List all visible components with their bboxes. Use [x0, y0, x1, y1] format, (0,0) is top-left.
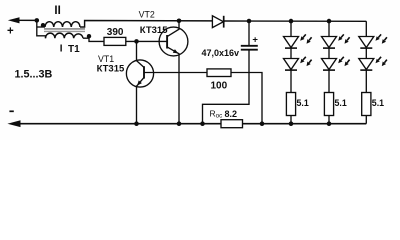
LED HL2b arrows — [341, 57, 344, 60]
wire winding II right terminal to top rail — [80, 21, 212, 28]
node capacitor top on rail — [247, 19, 252, 24]
node R100 return on bottom rail — [260, 121, 265, 126]
node LED branch 2 on top rail — [327, 19, 332, 24]
svg-text:8.2: 8.2 — [225, 109, 238, 119]
wire resistor to bottom rail branch 1 — [290, 116, 292, 124]
LED HL2b — [322, 59, 337, 70]
LED HL1a arrows — [303, 34, 306, 37]
node VT2 emitter on bottom rail — [177, 121, 182, 126]
resistor Roc 8.2 — [221, 120, 243, 128]
node: battery+ to transformer junction — [35, 18, 40, 23]
wire LED to resistor branch 1 — [290, 70, 292, 93]
VT1 emitter arrow — [137, 80, 142, 85]
svg-text:КТ315: КТ315 — [97, 63, 125, 74]
LED HL3a arrows — [378, 34, 381, 37]
phase dot winding II — [41, 23, 45, 27]
capacitor C1 plates — [241, 45, 258, 47]
LED HL1b arrows — [303, 57, 306, 60]
LED HL1a — [284, 37, 299, 48]
wire bottom rail (right of Roc) — [243, 123, 367, 125]
wire between LEDs branch 1 — [290, 48, 292, 59]
diode VD cathode bar — [223, 16, 225, 28]
svg-text:ос: ос — [216, 113, 223, 120]
VT1 base wire to R100 — [144, 72, 207, 74]
svg-text:Т1: Т1 — [68, 44, 80, 55]
node LED branch 1 on top rail — [289, 19, 294, 24]
node VT2 collector on top rail — [177, 19, 182, 24]
wire top rail left segment — [16, 19, 37, 21]
resistor 390 — [104, 37, 126, 45]
LED HL2a arrows — [341, 34, 344, 37]
+ terminal arrow — [8, 17, 20, 23]
wire resistor to bottom rail branch 3 — [365, 116, 367, 124]
node R390/VT1 collector/VT2 base — [134, 39, 139, 44]
VT2 emitter — [167, 47, 179, 124]
node capacitor return on bottom rail — [200, 121, 205, 126]
wire resistor to bottom rail branch 2 — [328, 116, 330, 124]
- terminal arrow (bottom rail) — [7, 120, 20, 127]
wire capacitor bottom to rail — [203, 50, 250, 123]
wire LED branch 2 top — [328, 21, 330, 36]
svg-text:КТ315: КТ315 — [140, 25, 168, 36]
resistor 5.1 branch 3 — [362, 93, 371, 116]
svg-text:+: + — [252, 35, 258, 46]
wire winding II left terminal — [37, 26, 45, 28]
VT2 base bar — [166, 35, 168, 49]
wire LED branch 3 top — [365, 21, 367, 36]
VT2 collector — [167, 21, 179, 37]
svg-text:VT2: VT2 — [139, 9, 155, 19]
svg-text:5.1: 5.1 — [335, 98, 347, 108]
wire R100 to bottom rail — [231, 73, 262, 124]
svg-text:100: 100 — [211, 81, 228, 92]
wire LED branch 1 top — [290, 21, 292, 36]
wire R390 to VT2 base — [126, 40, 167, 42]
transformer T1 winding II — [45, 22, 80, 27]
transistor VT1 circle — [126, 60, 153, 87]
LED HL3b — [359, 59, 374, 70]
resistor 5.1 branch 1 — [286, 93, 295, 116]
wire winding I right terminal — [83, 38, 104, 41]
LED HL1b — [284, 59, 299, 70]
VT1 base bar — [143, 66, 145, 78]
LED HL3b arrows — [378, 57, 381, 60]
wire LED to resistor branch 2 — [328, 70, 330, 93]
wire between LEDs branch 3 — [365, 48, 367, 59]
transformer core — [44, 28, 85, 30]
svg-text:390: 390 — [107, 27, 124, 38]
node LED branch 1 on bottom rail — [289, 121, 294, 126]
resistor 100 — [207, 69, 231, 77]
svg-text:II: II — [54, 5, 60, 17]
svg-text:5.1: 5.1 — [372, 98, 384, 108]
resistor 5.1 branch 2 — [324, 93, 333, 116]
transformer T1 winding I — [46, 33, 84, 38]
wire LED to resistor branch 3 — [365, 70, 367, 93]
LED HL2a — [322, 37, 337, 48]
wire VT1 collector from node — [136, 41, 138, 60]
transistor VT2 circle — [159, 27, 188, 56]
label - terminal — [9, 110, 13, 112]
phase dot winding I — [87, 34, 91, 38]
VT2 emitter arrow — [173, 49, 178, 53]
wire bottom rail (left of Roc) — [17, 123, 221, 125]
svg-text:I: I — [60, 44, 63, 55]
wire between LEDs branch 2 — [328, 48, 330, 59]
VT1 emitter — [137, 77, 145, 123]
VT1 collector diagonal — [137, 61, 145, 68]
svg-text:+: + — [7, 26, 14, 38]
node VT1 emitter on bottom rail — [134, 121, 139, 126]
wire transformer left bracket — [37, 20, 46, 38]
svg-text:5.1: 5.1 — [297, 98, 309, 108]
node LED branch 2 on bottom rail — [327, 121, 332, 126]
diode VD triangle — [212, 16, 223, 28]
svg-text:1.5...3В: 1.5...3В — [15, 69, 53, 81]
wire top rail right segment — [224, 20, 367, 22]
LED HL3a — [359, 37, 374, 48]
svg-text:47,0x16v: 47,0x16v — [202, 48, 240, 58]
wire rail to capacitor — [248, 21, 250, 45]
